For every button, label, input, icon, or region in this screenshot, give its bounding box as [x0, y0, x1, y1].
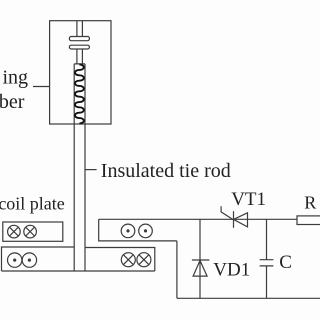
- current-out-of-page symbols upper-right: [121, 224, 152, 238]
- svg-text:C: C: [279, 252, 292, 273]
- contact spring (bellows): [75, 65, 84, 124]
- svg-text:coil plate: coil plate: [0, 194, 65, 214]
- upper-left coil plate (opening coil): [3, 222, 63, 241]
- upper contact rod: [77, 21, 83, 37]
- moving contact plate: [69, 45, 89, 49]
- svg-text:ber: ber: [0, 91, 25, 113]
- lower-left repulsion plate: [2, 247, 75, 271]
- resistor R: [297, 216, 320, 225]
- svg-text:ing: ing: [2, 67, 28, 89]
- repulsion plates common bottom edge: [2, 270, 155, 272]
- moving contact stem: [77, 49, 83, 64]
- lower-right repulsion plate: [85, 248, 155, 272]
- leader line to chamber label: [33, 86, 50, 88]
- diode VD1: [192, 219, 210, 298]
- upper-right coil plate (single-turn coil): [99, 219, 177, 241]
- vacuum arc-extinguishing chamber outline: [50, 21, 111, 124]
- fixed contact plate: [69, 37, 89, 41]
- svg-text:R: R: [304, 192, 316, 212]
- current-into-page symbols upper-left: [8, 225, 37, 238]
- wire: bottom return bus: [177, 297, 320, 299]
- leader line to tie rod label: [85, 169, 97, 171]
- current-into-page symbols lower-right: [121, 253, 151, 267]
- svg-text:VT1: VT1: [231, 189, 266, 210]
- wire: drop from coil plate corner to bottom bus: [176, 241, 178, 298]
- wire: top bus from coil plate to VT1 and R: [99, 218, 297, 220]
- current-out-of-page symbols lower-left: [8, 253, 37, 267]
- capacitor C: [260, 219, 274, 298]
- svg-text:VD1: VD1: [213, 259, 250, 280]
- insulated tie rod body: [74, 64, 85, 271]
- thyristor VT1: [221, 206, 247, 228]
- svg-text:Insulated tie rod: Insulated tie rod: [101, 160, 231, 182]
